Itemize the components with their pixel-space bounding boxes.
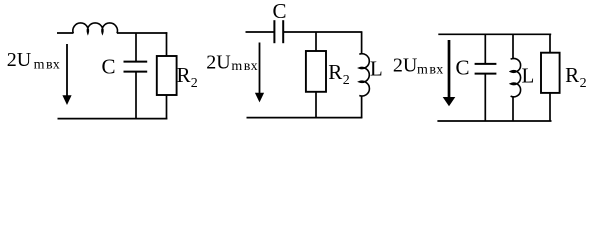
- svg-text:2: 2: [191, 76, 198, 91]
- wire capacitor top lead (circuit 1): [135, 33, 137, 62]
- source label 2Umвх (circuit 2): [206, 52, 258, 75]
- wire top-left (circuit 2): [246, 31, 275, 33]
- wire inductor top lead (circuit 3): [512, 34, 514, 59]
- wire bottom (circuit 1): [58, 118, 168, 120]
- wire bottom (circuit 2): [247, 117, 363, 119]
- svg-text:C: C: [456, 55, 470, 79]
- label R2 (circuit 1): [177, 63, 198, 91]
- source arrow (circuit 3, bold): [443, 40, 456, 106]
- svg-text:C: C: [273, 0, 287, 23]
- wire inductor bottom lead (circuit 2): [361, 96, 363, 119]
- svg-text:2: 2: [580, 76, 587, 91]
- wire capacitor bottom lead (circuit 3): [484, 74, 486, 122]
- capacitor C (circuit 3): [475, 64, 497, 74]
- svg-text:mвх: mвх: [417, 63, 443, 78]
- wire resistor top lead (circuit 1): [166, 32, 168, 56]
- svg-text:mвх: mвх: [231, 59, 257, 74]
- svg-text:2U: 2U: [7, 49, 32, 71]
- svg-text:2U: 2U: [393, 55, 418, 77]
- svg-text:2: 2: [343, 73, 350, 88]
- source label 2Umвх (circuit 1): [7, 49, 60, 73]
- source arrow (circuit 2): [255, 43, 264, 103]
- label R2 (circuit 2): [328, 60, 350, 88]
- wire top-left stub (circuit 1): [57, 32, 73, 34]
- svg-text:L: L: [522, 64, 535, 88]
- wire resistor bottom lead (circuit 1): [166, 95, 168, 119]
- svg-text:L: L: [370, 57, 383, 81]
- capacitor C (circuit 1): [124, 62, 148, 72]
- wire bottom (circuit 3): [437, 120, 551, 122]
- wire resistor top lead (circuit 2): [315, 32, 317, 51]
- capacitor C series (circuit 2): [274, 20, 283, 43]
- wire top (circuit 3): [438, 33, 551, 35]
- wire inductor bottom lead (circuit 3): [512, 96, 514, 121]
- wire resistor bottom lead (circuit 2): [315, 92, 317, 118]
- svg-text:R: R: [328, 60, 342, 84]
- source label 2Umвх (circuit 3): [393, 55, 444, 78]
- resistor R2 (circuit 1): [157, 56, 177, 95]
- inductor L (circuit 3): [511, 58, 521, 96]
- inductor (circuit 1, unlabeled coil): [73, 23, 118, 33]
- resistor R2 (circuit 3): [541, 53, 560, 93]
- wire capacitor bottom lead (circuit 1): [135, 72, 137, 119]
- label R2 (circuit 3): [565, 63, 587, 91]
- source arrow (circuit 1): [62, 44, 71, 105]
- svg-text:R: R: [565, 63, 579, 87]
- inductor L (circuit 2): [359, 54, 369, 96]
- svg-text:2U: 2U: [206, 52, 231, 74]
- svg-text:mвх: mвх: [34, 58, 60, 73]
- wire top (circuit 1): [117, 32, 167, 34]
- wire resistor top lead (circuit 3): [549, 34, 551, 52]
- wire top-right (circuit 2): [283, 31, 362, 33]
- wire resistor bottom lead (circuit 3): [549, 93, 551, 122]
- wire inductor top lead (circuit 2): [361, 32, 363, 55]
- svg-text:R: R: [177, 63, 191, 87]
- wire capacitor top lead (circuit 3): [484, 34, 486, 64]
- resistor R2 (circuit 2): [306, 51, 326, 92]
- svg-text:C: C: [102, 55, 116, 79]
